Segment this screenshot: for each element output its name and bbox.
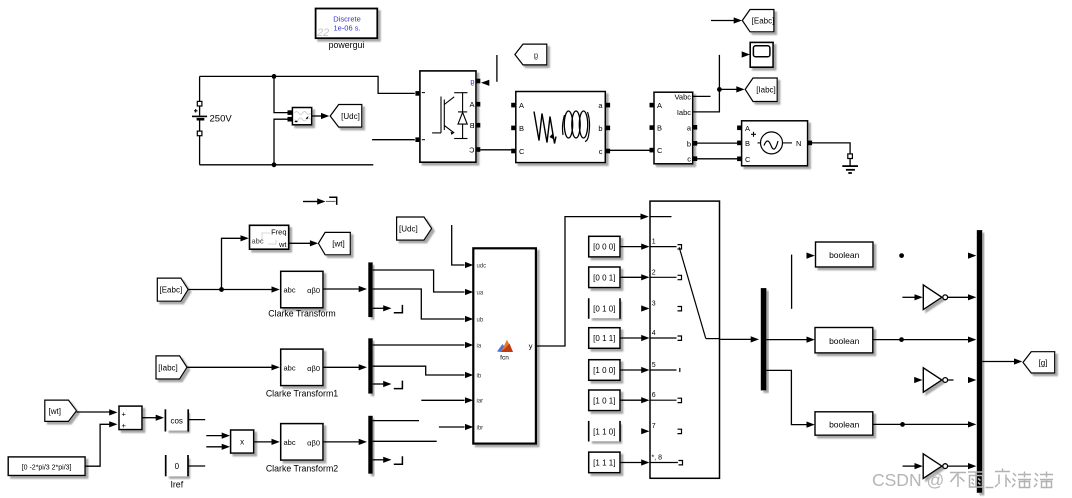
svg-text:Discrete: Discrete — [333, 15, 361, 24]
glyph 亦 — [995, 469, 1011, 488]
svg-text:g: g — [470, 77, 474, 86]
watermark CSDN — [872, 469, 1053, 491]
constant [0 0 0] — [589, 236, 620, 257]
svg-text:1e-06 s.: 1e-06 s. — [333, 24, 360, 33]
svg-text:abc: abc — [252, 237, 264, 246]
Clarke Transform2 — [266, 424, 338, 474]
svg-text:cos: cos — [170, 416, 182, 425]
wire Clarke1 out to demux2 — [323, 364, 367, 370]
wire Iabc to Clarke1 — [187, 364, 280, 370]
constant 0 (Iref) — [166, 455, 188, 490]
from tag Udc — [397, 217, 432, 240]
wire RLC c to measurement C — [610, 149, 652, 151]
wire c2 to port2 — [620, 269, 682, 280]
boolean3 — [815, 412, 873, 435]
wire fcn y to switch control — [536, 214, 649, 347]
wire switch out to demux4 — [720, 336, 760, 342]
arrow into boolean1 — [807, 253, 815, 259]
svg-text:[g]: [g] — [1039, 359, 1048, 368]
resistor zigzag icon — [534, 112, 556, 144]
wire meas b to source B — [695, 142, 739, 144]
terminator demux3 out3 — [373, 456, 403, 464]
svg-text:A: A — [519, 101, 524, 110]
ground — [842, 154, 858, 173]
arrow port3 — [641, 301, 681, 312]
svg-text:22: 22 — [316, 27, 329, 39]
DC source V1 250V battery — [192, 76, 232, 164]
svg-text:Iabc: Iabc — [677, 108, 691, 117]
cos block — [165, 409, 188, 431]
NOT gate 2 — [914, 368, 976, 392]
svg-text:C: C — [745, 155, 751, 164]
svg-text:b: b — [598, 124, 602, 133]
wire boolean2 to mux — [873, 337, 977, 343]
mux — [977, 230, 982, 493]
wire wt to sum — [77, 409, 118, 415]
svg-text:Clarke Transform: Clarke Transform — [268, 309, 335, 319]
node after boolean1 — [899, 253, 904, 258]
svg-text:A: A — [657, 101, 662, 110]
wire product in stubs — [206, 433, 230, 450]
svg-text:[Udc]: [Udc] — [341, 112, 360, 121]
svg-text:1: 1 — [652, 239, 656, 246]
powergui block — [316, 9, 378, 51]
svg-text:powergui: powergui — [329, 40, 365, 50]
svg-text:CSDN @: CSDN @ — [872, 470, 944, 490]
wire 0 out stub — [188, 465, 205, 467]
svg-text:[0 0 1]: [0 0 1] — [593, 273, 615, 282]
wire demux2 out2 to fcn ib — [373, 366, 465, 375]
wire demux4 out3 to boolean3 — [766, 370, 814, 427]
voltage measurement U1 — [288, 108, 312, 125]
node bottom junction — [272, 162, 277, 167]
wire branch to PLL — [222, 235, 249, 289]
wire c8 to port8 — [620, 455, 683, 466]
constant [1 1 0] — [589, 421, 620, 442]
from tag Iabc — [156, 356, 187, 379]
svg-text:wt: wt — [278, 240, 287, 249]
wire bridge minus stub — [372, 139, 415, 141]
terminator demux2 out3 — [373, 381, 403, 389]
svg-text:g: g — [534, 51, 538, 60]
wire to fcn ibr — [439, 426, 465, 428]
svg-text:abc: abc — [284, 285, 296, 294]
svg-text:[wt]: [wt] — [332, 239, 344, 248]
universal bridge inverter — [415, 71, 480, 162]
wire demux1 out2 to fcn ub — [373, 289, 465, 319]
glyph 不 — [950, 473, 966, 488]
svg-text:[1 0 0]: [1 0 0] — [593, 366, 615, 375]
glyph 潇 — [1012, 472, 1031, 488]
wire DC+ top — [200, 74, 415, 93]
arrow port7 — [641, 423, 681, 434]
constant [1 0 0] — [589, 360, 620, 381]
three-phase source — [737, 121, 812, 166]
svg-text:boolean: boolean — [829, 420, 860, 430]
svg-text:ia: ia — [477, 343, 482, 349]
boolean2 — [815, 328, 873, 353]
boolean1 — [816, 242, 874, 267]
wire VM out — [312, 113, 330, 119]
from tag wt — [45, 400, 77, 421]
three-phase V-I measurement — [650, 92, 698, 164]
sum block — [119, 406, 142, 430]
wire demux2 out1 to fcn ia — [373, 344, 465, 346]
svg-text:boolean: boolean — [829, 250, 860, 260]
svg-text:[Eabc]: [Eabc] — [160, 286, 183, 295]
svg-text:fcn: fcn — [500, 355, 509, 362]
svg-text:udc: udc — [477, 263, 487, 269]
wire DC- bottom — [200, 164, 374, 166]
svg-text:2: 2 — [652, 269, 656, 276]
wire constant to sum — [85, 421, 117, 466]
svg-text:0: 0 — [175, 462, 180, 471]
wire c6 to port6 — [620, 392, 682, 403]
from tag g (mirrored) — [515, 44, 547, 65]
svg-text:x: x — [240, 438, 244, 447]
svg-text:[1 0 1]: [1 0 1] — [593, 396, 615, 405]
svg-text:abc: abc — [284, 363, 296, 372]
constant [0 0 1] — [589, 267, 620, 288]
demux3 — [368, 416, 372, 474]
svg-text:+: + — [122, 409, 127, 418]
scope — [742, 42, 773, 67]
from tag Eabc — [157, 278, 188, 301]
wire source N to ground — [812, 143, 850, 154]
svg-text:7: 7 — [652, 423, 656, 430]
inductor coils icon — [564, 111, 572, 138]
svg-text:[0 0 0]: [0 0 0] — [593, 243, 615, 252]
svg-text:Freq: Freq — [271, 228, 286, 237]
MATLAB logo — [497, 344, 506, 352]
svg-text:[0 1 0]: [0 1 0] — [593, 305, 615, 314]
svg-text:N: N — [796, 139, 801, 148]
constant [0 1 1] — [589, 328, 620, 349]
svg-text:[wt]: [wt] — [49, 407, 61, 416]
svg-text:A: A — [745, 124, 750, 133]
constant [0 1 0] — [589, 298, 620, 319]
svg-text:αβ0: αβ0 — [307, 364, 320, 373]
svg-text:250V: 250V — [210, 113, 233, 124]
svg-text:y: y — [529, 342, 533, 351]
wire cos out stub — [189, 419, 206, 421]
wire demux4 out1 stub — [791, 255, 793, 309]
NOT gate 1 — [902, 285, 976, 310]
wire PLL wt out — [289, 240, 319, 246]
svg-text:B: B — [657, 124, 662, 133]
wire meas c to source C — [695, 158, 739, 160]
wire to fcn iar — [421, 399, 464, 401]
svg-text:Vabc: Vabc — [674, 92, 691, 101]
svg-text:B: B — [745, 139, 750, 148]
svg-text:b: b — [687, 139, 691, 148]
svg-text:[1 1 1]: [1 1 1] — [593, 458, 615, 467]
three-phase series RLC branch — [511, 92, 610, 163]
MATLAB function block fcn — [465, 248, 536, 443]
wire Vabc stub — [693, 95, 711, 97]
svg-text:B: B — [519, 124, 524, 133]
goto tag Eabc — [742, 10, 774, 32]
wire c1 to port1 — [620, 239, 682, 250]
multiport switch — [650, 201, 720, 478]
wire boolean3 to mux — [873, 421, 977, 427]
product block — [231, 430, 254, 453]
wire demux4 out2 to boolean2 — [766, 337, 814, 343]
constant [1 0 1] — [589, 390, 620, 411]
wire into goto Eabc — [711, 17, 742, 23]
demux1 — [368, 262, 372, 317]
wire sum to cos — [142, 415, 164, 421]
goto tag Iabc — [745, 78, 777, 102]
wire mux out to goto g — [982, 358, 1022, 364]
svg-text:ibr: ibr — [477, 425, 484, 431]
svg-text:c: c — [599, 147, 603, 156]
terminator demux1 out3 — [373, 305, 403, 313]
goto tag wt — [318, 232, 350, 254]
svg-text:5: 5 — [652, 362, 656, 369]
wire demux3 out1 stub — [373, 420, 419, 422]
svg-text:C: C — [469, 145, 475, 154]
wire Iabc to goto — [693, 55, 745, 112]
svg-text:[0 1 1]: [0 1 1] — [593, 334, 615, 343]
wire Clarke2 out to demux3 — [323, 439, 367, 445]
demux4 — [761, 288, 767, 390]
glyph 雨 — [968, 472, 984, 487]
svg-text:4: 4 — [652, 330, 656, 337]
svg-text:B: B — [469, 121, 474, 130]
PLL block abc Freq wt — [250, 225, 289, 249]
svg-text:αβ0: αβ0 — [307, 286, 320, 295]
wire Udc to fcn udc — [452, 225, 465, 265]
wire c5 to port5 — [620, 362, 680, 373]
svg-text:3: 3 — [652, 301, 656, 308]
wire g stub — [481, 55, 497, 86]
svg-text:[Iabc]: [Iabc] — [158, 363, 178, 372]
wire to voltage measurement — [274, 76, 291, 164]
svg-text:[Udc]: [Udc] — [399, 225, 418, 234]
svg-text:C: C — [519, 147, 525, 156]
constant [1 1 1] — [589, 452, 620, 473]
wire Eabc to Clarke — [188, 286, 280, 292]
svg-text:[1 1 0]: [1 1 0] — [593, 427, 615, 436]
svg-text:boolean: boolean — [829, 336, 860, 346]
svg-text:*, 8: *, 8 — [652, 455, 663, 462]
goto tag Udc — [330, 105, 362, 128]
svg-text:[Eabc]: [Eabc] — [752, 17, 775, 26]
glyph 潇 second — [1034, 472, 1053, 488]
svg-text:iar: iar — [477, 399, 484, 405]
svg-text:ub: ub — [477, 317, 484, 323]
wire demux1 out1 to fcn ua — [373, 270, 465, 292]
svg-text:[Iabc]: [Iabc] — [756, 85, 776, 94]
svg-text:ib: ib — [477, 373, 482, 379]
constant [0 -2*pi/3 2*pi/3] — [8, 457, 85, 476]
wire product to Clarke2 — [254, 439, 280, 445]
Clarke Transform — [268, 271, 335, 318]
svg-text:Clarke Transform2: Clarke Transform2 — [266, 464, 338, 474]
wire Clarke out to demux1 — [323, 286, 367, 292]
svg-text:[0 -2*pi/3 2*pi/3]: [0 -2*pi/3 2*pi/3] — [22, 464, 72, 471]
goto tag g — [1023, 352, 1055, 373]
svg-text:C: C — [657, 146, 663, 155]
svg-text:αβ0: αβ0 — [307, 439, 320, 448]
Clarke Transform1 — [266, 349, 338, 398]
svg-text:6: 6 — [652, 392, 656, 399]
demux2 — [368, 338, 372, 393]
svg-text:c: c — [687, 155, 691, 164]
svg-text:Iref: Iref — [170, 480, 183, 490]
svg-text:Clarke Transform1: Clarke Transform1 — [266, 389, 338, 399]
svg-text:abc: abc — [284, 438, 296, 447]
terminator top middle — [303, 197, 337, 205]
IGBT/diode icon — [432, 93, 467, 139]
glyph _ — [986, 487, 994, 489]
svg-text:A: A — [469, 100, 474, 109]
svg-text:+: + — [122, 421, 127, 430]
wire bridge C to RLC — [480, 149, 513, 151]
wire c4 to port4 — [620, 330, 682, 341]
wire demux3 out2 stub — [373, 440, 437, 442]
arrow boolean1 to mux — [968, 253, 976, 259]
svg-text:ua: ua — [477, 290, 484, 296]
NOT gate 3 — [903, 454, 977, 479]
